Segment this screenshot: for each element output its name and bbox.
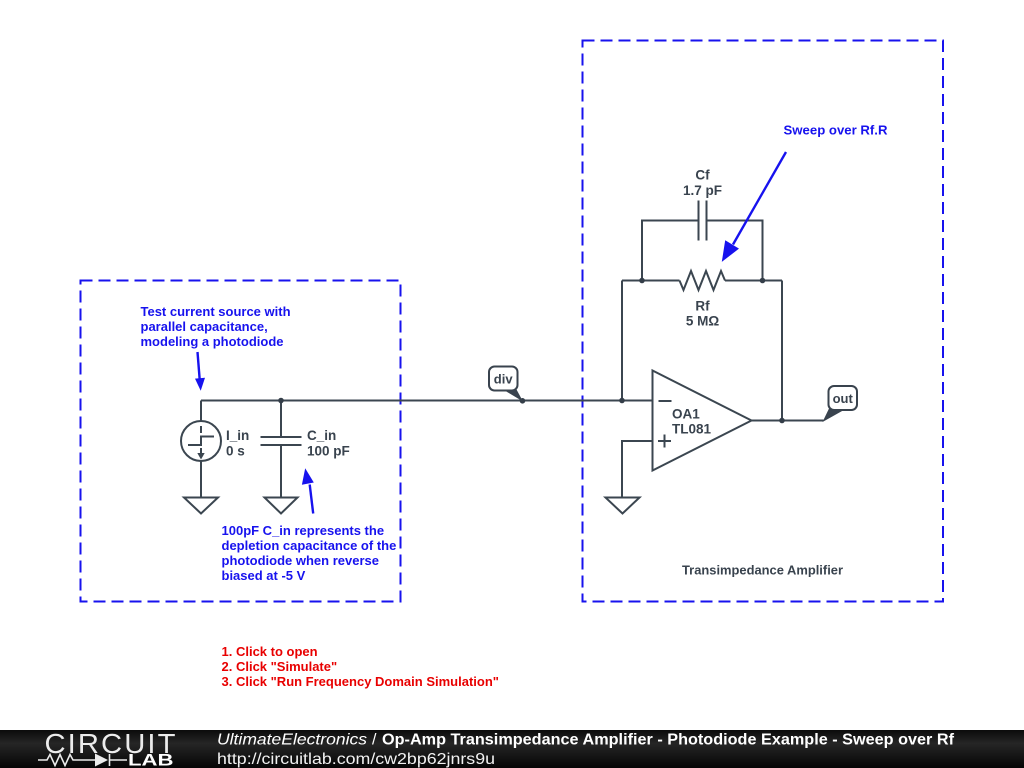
svg-text:1. Click to open: 1. Click to open: [222, 644, 318, 659]
wire Cf branch left: [642, 221, 699, 281]
svg-text:1.7 pF: 1.7 pF: [683, 183, 722, 198]
annotation box (left, photodiode model): [81, 281, 401, 602]
blue annotation: test current source note: [141, 304, 291, 349]
svg-text:5 MΩ: 5 MΩ: [686, 314, 720, 329]
svg-text:2. Click "Simulate": 2. Click "Simulate": [222, 659, 338, 674]
junction feedback at inverting input: [619, 398, 625, 404]
junction div flag attach: [520, 398, 526, 404]
svg-text:Cf: Cf: [695, 167, 710, 182]
svg-text:parallel capacitance,: parallel capacitance,: [141, 319, 268, 334]
svg-text:biased at -5 V: biased at -5 V: [222, 568, 306, 583]
svg-text:out: out: [833, 391, 854, 406]
op-amp OA1 non-inverting input glyph: [658, 435, 671, 448]
wire feedback row left: [622, 280, 680, 282]
current source I_in arrow head: [197, 453, 204, 460]
svg-text:TL081: TL081: [672, 422, 712, 437]
svg-text:0 s: 0 s: [226, 443, 245, 458]
junction Cf left branch: [639, 278, 645, 284]
node flag div: [489, 367, 523, 402]
svg-text:Test current source with: Test current source with: [141, 304, 291, 319]
current source I_in: [181, 421, 221, 461]
svg-text:I_in: I_in: [226, 428, 249, 443]
resistor Rf zigzag: [680, 271, 726, 290]
wire C_in top branch: [280, 401, 282, 438]
svg-text:depletion capacitance of the: depletion capacitance of the: [222, 538, 397, 553]
wire main horizontal net div: [201, 400, 653, 402]
svg-text:Sweep over Rf.R: Sweep over Rf.R: [784, 123, 889, 138]
wire C_in bottom: [280, 445, 282, 498]
wire op-amp output: [752, 420, 824, 422]
op-amp OA1 body: [653, 371, 752, 471]
svg-text:UltimateElectronics: UltimateElectronics: [217, 732, 367, 749]
annotation box (right, transimpedance amplifier): [583, 41, 944, 602]
CircuitLab logo: resistor+diode glyph: [38, 754, 127, 766]
capacitor C_in plates: [261, 437, 302, 445]
svg-text:100 pF: 100 pF: [307, 443, 350, 458]
svg-text:/: /: [372, 732, 377, 749]
ground (under I_in): [184, 498, 218, 514]
junction C_in on net div: [278, 398, 284, 404]
capacitor Cf plates: [699, 201, 707, 241]
wire current source top: [200, 401, 202, 422]
blue annotation: 100pF C_in note: [222, 523, 397, 583]
wire output feedback vertical: [781, 281, 783, 421]
svg-text:Transimpedance Amplifier: Transimpedance Amplifier: [682, 563, 843, 578]
node flag out: [823, 386, 858, 422]
wire Cf branch right: [707, 221, 763, 281]
blue arrow to current source: [195, 352, 205, 391]
red instructions text: [222, 644, 499, 689]
svg-text:Op-Amp Transimpedance Amplifie: Op-Amp Transimpedance Amplifier - Photod…: [382, 732, 955, 749]
blue arrow to C_in: [302, 468, 314, 513]
svg-text:100pF C_in represents the: 100pF C_in represents the: [222, 523, 385, 538]
footer bar: [0, 730, 1024, 768]
blue arrow to Rf: [722, 152, 786, 262]
svg-text:http://circuitlab.com/cw2bp62j: http://circuitlab.com/cw2bp62jnrs9u: [217, 751, 495, 768]
junction Cf right branch: [760, 278, 766, 284]
wire non-inverting input to ground: [622, 441, 653, 498]
ground (op-amp + input): [606, 498, 640, 514]
svg-text:Rf: Rf: [695, 299, 710, 314]
op-amp OA1 inverting input glyph: [659, 400, 672, 402]
wire current source bottom: [200, 461, 202, 498]
svg-text:OA1: OA1: [672, 407, 700, 422]
svg-text:photodiode when reverse: photodiode when reverse: [222, 553, 379, 568]
wire feedback vertical from inverting input: [621, 281, 623, 401]
svg-text:modeling a photodiode: modeling a photodiode: [141, 334, 284, 349]
wire feedback row right: [725, 280, 782, 282]
svg-text:3. Click "Run Frequency Domain: 3. Click "Run Frequency Domain Simulatio…: [222, 674, 499, 689]
junction output node: [779, 418, 785, 424]
svg-text:LAB: LAB: [128, 751, 174, 768]
ground (under C_in): [265, 498, 298, 514]
svg-text:C_in: C_in: [307, 428, 336, 443]
svg-text:div: div: [494, 372, 514, 387]
